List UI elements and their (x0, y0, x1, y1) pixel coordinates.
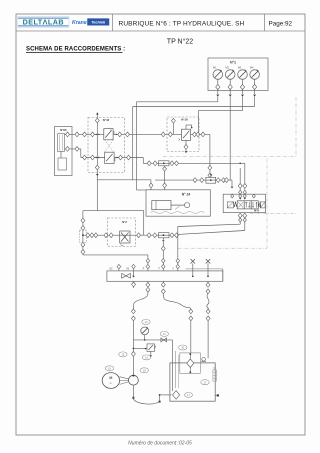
svg-text:M: M (109, 376, 112, 380)
svg-text:M1: M1 (213, 66, 217, 70)
svg-text:N°16: N°16 (181, 118, 188, 122)
svg-text:DELTΛLAB: DELTΛLAB (23, 18, 64, 27)
svg-text:M2: M2 (225, 66, 229, 70)
svg-text:X1: X1 (126, 266, 130, 270)
svg-text:N°2: N°2 (122, 220, 127, 224)
svg-text:Y: Y (172, 266, 174, 270)
svg-text:RUBRIQUE N°6 : TP HYDRAULIQUE: RUBRIQUE N°6 : TP HYDRAULIQUE. SH (119, 19, 245, 27)
svg-text:Page:92: Page:92 (269, 20, 293, 27)
svg-text:N° 24: N° 24 (182, 192, 191, 196)
svg-text:TP N°22: TP N°22 (167, 38, 194, 46)
svg-text:M3: M3 (238, 66, 242, 70)
svg-text:M4: M4 (250, 66, 254, 70)
svg-text:N°80: N°80 (60, 128, 67, 132)
svg-text:N°42: N°42 (103, 118, 110, 122)
svg-text:N°1: N°1 (230, 60, 236, 64)
svg-text:X2: X2 (109, 266, 113, 270)
svg-text:P: P (143, 266, 145, 270)
svg-text:Krane: Krane (72, 20, 87, 26)
svg-text:Numéro de document :02-05: Numéro de document :02-05 (128, 441, 192, 447)
svg-text:SCHEMA DE RACCORDEMENTS :: SCHEMA DE RACCORDEMENTS : (26, 47, 125, 53)
svg-text:Technik: Technik (91, 21, 106, 25)
